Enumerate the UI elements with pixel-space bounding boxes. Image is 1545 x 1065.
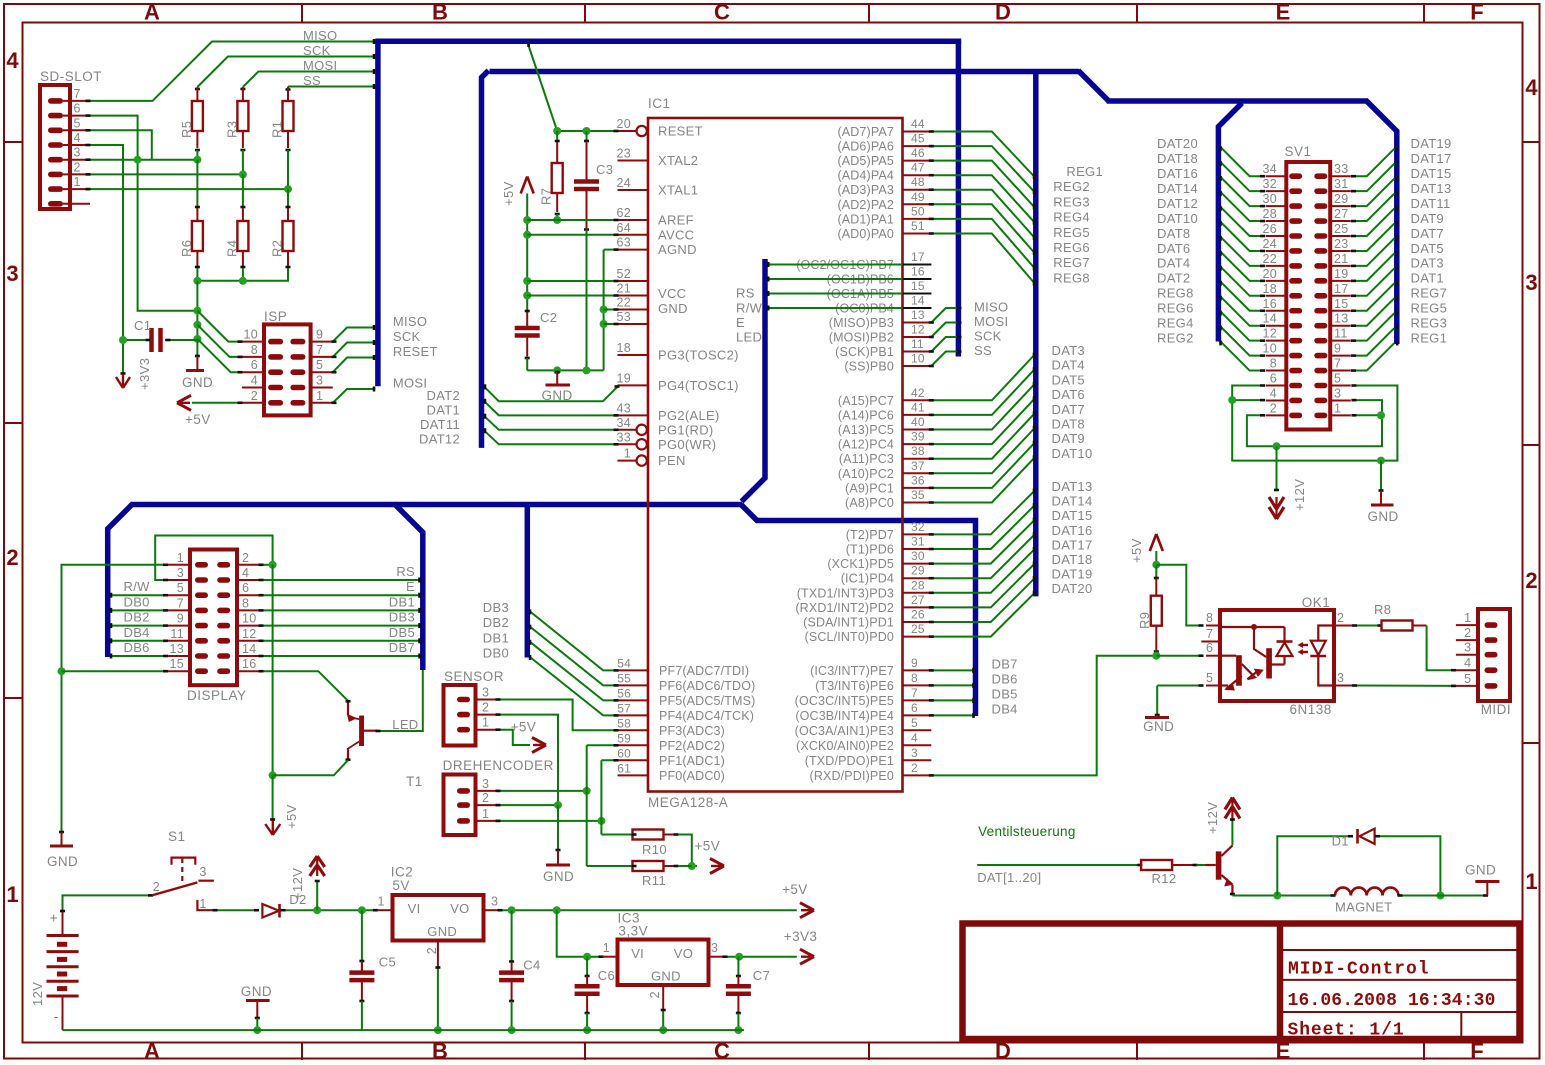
svg-text:11: 11 bbox=[911, 337, 924, 351]
svg-text:C7: C7 bbox=[753, 968, 770, 983]
wire DAT20 to SV1 pin 34 bbox=[1157, 136, 1265, 176]
wire flyback right bbox=[1375, 836, 1444, 899]
svg-text:(SCL/INT0)PD0: (SCL/INT0)PD0 bbox=[805, 630, 894, 644]
IC1 pin 62 AREF bbox=[616, 206, 693, 228]
wire DAT3 PC7 to DAT bus bbox=[929, 343, 1085, 400]
bus LCD DB vertical bbox=[525, 505, 531, 658]
connector DREHENCODER body bbox=[443, 758, 554, 835]
IC1 pin 6 (OC3B/INT4)PE4 bbox=[795, 701, 931, 723]
wire DAT17 PD3 to DAT bus bbox=[929, 537, 1093, 592]
svg-text:SCK: SCK bbox=[303, 43, 331, 58]
svg-text:3: 3 bbox=[6, 261, 18, 286]
svg-text:SENSOR: SENSOR bbox=[444, 669, 504, 684]
IC1 pin 45 (AD6)PA6 bbox=[837, 132, 931, 154]
svg-text:25: 25 bbox=[1334, 222, 1349, 236]
SENSOR pin 1 bbox=[457, 716, 499, 733]
power +12V arrow at SV1 bbox=[1269, 446, 1307, 519]
svg-text:GND: GND bbox=[1465, 863, 1496, 878]
wire DB7 PE7 to DB bus bbox=[929, 656, 1018, 673]
svg-text:64: 64 bbox=[616, 221, 631, 235]
svg-text:DAT10: DAT10 bbox=[1157, 211, 1198, 226]
IC1 pin 59 PF2(ADC2) bbox=[617, 731, 725, 753]
wire SCK PB1 to SPI bus bbox=[929, 329, 1002, 352]
SV1 pin 16 bbox=[1262, 297, 1302, 314]
bus SV1 right vertical bbox=[1366, 100, 1397, 344]
svg-text:31: 31 bbox=[911, 535, 925, 549]
svg-text:DAT8: DAT8 bbox=[1052, 417, 1085, 432]
svg-text:PG0(WR): PG0(WR) bbox=[658, 437, 716, 452]
wire +5V to IC3 bbox=[557, 910, 604, 961]
svg-text:12V: 12V bbox=[30, 982, 45, 1006]
svg-text:C: C bbox=[714, 0, 730, 25]
junction +3V3 C1 bbox=[119, 336, 127, 344]
svg-text:(IC3/INT7)PE7: (IC3/INT7)PE7 bbox=[810, 664, 894, 678]
svg-text:DAT13: DAT13 bbox=[1052, 479, 1093, 494]
IC1 pin 17 (OC2/OC1C)PB7 bbox=[796, 250, 931, 272]
svg-text:(A11)PC3: (A11)PC3 bbox=[839, 452, 894, 466]
svg-text:35: 35 bbox=[911, 488, 925, 502]
svg-text:REG4: REG4 bbox=[1053, 210, 1090, 225]
SV1 pin 3 bbox=[1314, 386, 1351, 403]
wire MISO PB3 to SPI bus bbox=[929, 300, 1009, 323]
IC1 pin 40 (A13)PC5 bbox=[838, 415, 931, 437]
svg-text:DAT17: DAT17 bbox=[1052, 537, 1093, 552]
svg-text:REG3: REG3 bbox=[1411, 316, 1448, 331]
svg-text:C2: C2 bbox=[540, 310, 557, 325]
net label DAT12 bbox=[419, 432, 460, 447]
wire pull-up common node bbox=[193, 268, 288, 343]
svg-text:+5V: +5V bbox=[511, 719, 537, 734]
svg-text:1: 1 bbox=[624, 447, 631, 461]
wire MOSI from R3 bbox=[240, 69, 375, 89]
wire AGND bbox=[600, 250, 619, 371]
svg-text:VI: VI bbox=[408, 901, 421, 916]
svg-text:+12V: +12V bbox=[290, 868, 305, 900]
wire DREHENCODER pin1 to PF1 and R10 bbox=[496, 760, 633, 834]
OK1 pin 6 bbox=[1206, 641, 1220, 656]
wire DAT8 to SV1 pin 22 bbox=[1157, 226, 1265, 266]
wire DAT16 to SV1 pin 30 bbox=[1157, 166, 1265, 206]
svg-text:48: 48 bbox=[911, 175, 925, 189]
svg-text:MOSI: MOSI bbox=[393, 376, 427, 391]
svg-text:DAT19: DAT19 bbox=[1411, 136, 1452, 151]
svg-text:R8: R8 bbox=[1374, 602, 1391, 617]
svg-text:1: 1 bbox=[199, 897, 206, 911]
wire GND rail under C2 bbox=[527, 366, 603, 374]
SV1 pin 8 bbox=[1266, 357, 1303, 374]
svg-text:50: 50 bbox=[911, 204, 925, 218]
wire DISPLAY pin2 +5V bbox=[259, 561, 277, 820]
svg-text:REG8: REG8 bbox=[1053, 270, 1090, 285]
IC1 pin 1 PEN bbox=[618, 447, 686, 469]
svg-text:2: 2 bbox=[648, 991, 662, 998]
IC1 pin 47 (AD4)PA4 bbox=[837, 161, 931, 183]
wire DAT11 to SV1 pin 25 bbox=[1351, 196, 1451, 236]
svg-text:5V: 5V bbox=[392, 878, 410, 893]
DISPLAY pin 1 bbox=[167, 551, 208, 568]
svg-text:DAT17: DAT17 bbox=[1411, 151, 1452, 166]
switch S1 bbox=[152, 829, 214, 911]
svg-text:(A13)PC5: (A13)PC5 bbox=[838, 423, 894, 437]
SD-SLOT pin 4 bbox=[48, 131, 90, 148]
svg-text:PF1(ADC1): PF1(ADC1) bbox=[659, 754, 725, 768]
DISPLAY pin 2 bbox=[217, 551, 260, 568]
IC1 pin 4 (XCK0/AIN0)PE2 bbox=[796, 731, 931, 753]
IC1 pin 9 (IC3/INT7)PE7 bbox=[810, 656, 931, 678]
svg-text:DAT18: DAT18 bbox=[1157, 151, 1198, 166]
IC1 pin 58 PF3(ADC3) bbox=[617, 716, 725, 738]
svg-text:16.06.2008 16:34:30: 16.06.2008 16:34:30 bbox=[1288, 991, 1496, 1011]
wire D2 to IC2 bbox=[281, 906, 379, 914]
svg-text:SS: SS bbox=[303, 73, 321, 88]
optocoupler OK1 6N138 body bbox=[1220, 595, 1334, 717]
bus DAT left vertical bbox=[482, 71, 489, 448]
svg-text:1: 1 bbox=[1464, 611, 1471, 625]
net label DAT11 bbox=[420, 417, 460, 432]
svg-text:GND: GND bbox=[182, 375, 213, 390]
svg-text:14: 14 bbox=[242, 642, 257, 656]
svg-text:R1: R1 bbox=[270, 121, 285, 138]
svg-text:XTAL2: XTAL2 bbox=[658, 153, 698, 168]
svg-text:PF7(ADC7/TDI): PF7(ADC7/TDI) bbox=[659, 664, 749, 678]
svg-text:19: 19 bbox=[616, 371, 631, 385]
svg-text:6: 6 bbox=[251, 358, 258, 372]
svg-text:3: 3 bbox=[1525, 270, 1537, 295]
resistor R9 bbox=[1137, 565, 1162, 660]
wire DB4 DISPLAY to bus bbox=[110, 625, 168, 644]
svg-text:DB5: DB5 bbox=[992, 686, 1018, 701]
svg-text:DAT7: DAT7 bbox=[1411, 226, 1444, 241]
resistor R8 bbox=[1374, 602, 1427, 631]
SV1 pin 11 bbox=[1314, 327, 1351, 344]
IC1 pin 21 VCC bbox=[616, 282, 686, 302]
svg-text:28: 28 bbox=[911, 578, 925, 592]
svg-text:49: 49 bbox=[911, 190, 925, 204]
svg-text:DAT13: DAT13 bbox=[1411, 181, 1452, 196]
wire REG5 PA3 to DAT bus bbox=[929, 190, 1090, 240]
wire IC3 out +3V3 bbox=[723, 953, 797, 961]
wire +5V column bbox=[523, 194, 531, 311]
svg-text:(A12)PC4: (A12)PC4 bbox=[838, 438, 894, 452]
ground GND under C2 bbox=[542, 370, 573, 403]
power +3V3 arrow bbox=[116, 358, 152, 390]
svg-text:AVCC: AVCC bbox=[658, 227, 694, 242]
resistor R6 bbox=[179, 208, 203, 267]
wire R3 bottom bbox=[239, 150, 247, 207]
svg-text:62: 62 bbox=[616, 206, 631, 220]
svg-text:6: 6 bbox=[911, 701, 918, 715]
SD-SLOT pin 6 bbox=[48, 102, 90, 119]
SD-SLOT pin 7 bbox=[48, 87, 90, 104]
wire IC3 pin2 to rail bbox=[659, 1009, 667, 1034]
svg-text:PG4(TOSC1): PG4(TOSC1) bbox=[658, 378, 739, 393]
wire R/W to PB6 bbox=[768, 277, 932, 282]
wire OK1 pin3 to MIDI pin5 bbox=[1352, 685, 1456, 687]
ISP pin 6 bbox=[242, 358, 283, 375]
svg-text:63: 63 bbox=[616, 236, 631, 250]
svg-text:21: 21 bbox=[616, 282, 631, 296]
svg-text:C5: C5 bbox=[379, 955, 396, 970]
svg-text:28: 28 bbox=[1262, 207, 1277, 221]
IC1 pin 27 (RXD1/INT2)PD2 bbox=[795, 593, 931, 615]
svg-text:MIDI: MIDI bbox=[1481, 702, 1512, 717]
resistor R4 bbox=[224, 208, 248, 267]
svg-text:1: 1 bbox=[177, 551, 184, 565]
wire DAT4 PC6 to DAT bus bbox=[929, 358, 1085, 415]
wire ISP pin7 SCK bbox=[332, 340, 376, 357]
svg-text:PF2(ADC2): PF2(ADC2) bbox=[659, 739, 725, 753]
resistor R12 bbox=[1141, 860, 1197, 886]
wire REG1 PA7 to DAT bus bbox=[929, 132, 1103, 180]
DISPLAY pin 4 bbox=[217, 566, 260, 583]
svg-text:5: 5 bbox=[911, 716, 918, 730]
MIDI pin 4 bbox=[1456, 656, 1498, 673]
svg-text:C1: C1 bbox=[134, 318, 151, 333]
wire DB3 DISPLAY to bus right bbox=[259, 610, 421, 629]
svg-text:4: 4 bbox=[1270, 386, 1277, 400]
OK1 internal symbol bbox=[1221, 624, 1334, 691]
svg-text:(AD3)PA3: (AD3)PA3 bbox=[837, 183, 894, 197]
IC1 pin 38 (A11)PC3 bbox=[839, 444, 931, 466]
wire RXD PE0 to OK1 input bbox=[929, 656, 1155, 776]
svg-text:DAT12: DAT12 bbox=[1157, 196, 1198, 211]
svg-text:11: 11 bbox=[170, 627, 184, 641]
svg-text:6N138: 6N138 bbox=[1290, 702, 1332, 717]
IC1 pin 50 (AD1)PA1 bbox=[837, 204, 931, 226]
SV1 pin 20 bbox=[1262, 267, 1302, 284]
wire SENSOR pin3 to PF3 bbox=[496, 700, 619, 731]
wire R1 bottom bbox=[284, 150, 292, 207]
svg-text:37: 37 bbox=[911, 459, 925, 473]
OK1 pin 5 bbox=[1206, 671, 1220, 686]
svg-text:3: 3 bbox=[711, 941, 718, 955]
DREHENCODER pin 3 bbox=[457, 777, 499, 794]
wire REG5 to SV1 pin 11 bbox=[1351, 301, 1447, 341]
svg-text:56: 56 bbox=[617, 686, 631, 700]
IC1 pin 24 XTAL1 bbox=[616, 176, 698, 198]
wire magnet to GND bbox=[1398, 895, 1489, 897]
IC1 pin 26 (SDA/INT1)PD1 bbox=[803, 608, 931, 630]
svg-text:DAT19: DAT19 bbox=[1052, 567, 1093, 582]
ISP pin 8 bbox=[242, 343, 283, 360]
svg-text:SCK: SCK bbox=[393, 329, 421, 344]
svg-text:1: 1 bbox=[6, 882, 18, 907]
svg-text:DAT3: DAT3 bbox=[1052, 343, 1085, 358]
svg-text:3: 3 bbox=[1464, 641, 1471, 655]
power +5V arrow at R9 bbox=[1129, 534, 1163, 565]
svg-text:DB6: DB6 bbox=[992, 671, 1018, 686]
bus DAT horizontal to SV1 bbox=[1107, 98, 1368, 104]
svg-text:4: 4 bbox=[6, 48, 19, 73]
svg-text:+5V: +5V bbox=[185, 412, 211, 427]
wire E to PB5 bbox=[768, 291, 932, 296]
IC1 pin 43 PG2(ALE) bbox=[616, 401, 719, 423]
svg-text:VCC: VCC bbox=[658, 286, 686, 301]
SV1 pin 14 bbox=[1262, 312, 1302, 329]
svg-text:R/W: R/W bbox=[736, 301, 763, 316]
svg-text:2: 2 bbox=[1337, 611, 1344, 625]
SV1 pin 28 bbox=[1262, 207, 1302, 224]
svg-text:(A15)PC7: (A15)PC7 bbox=[838, 394, 894, 408]
wire ISP pin2 +5V bbox=[192, 402, 243, 404]
wire REG7 PA1 to DAT bus bbox=[929, 219, 1090, 270]
bus LCD jog segment bbox=[741, 505, 976, 717]
wire DAT10 PC0 to DAT bus bbox=[929, 446, 1093, 503]
svg-text:OK1: OK1 bbox=[1302, 595, 1331, 610]
svg-text:60: 60 bbox=[617, 746, 631, 760]
wire REG6 to SV1 pin 12 bbox=[1157, 301, 1265, 341]
svg-text:DAT1: DAT1 bbox=[1411, 271, 1444, 286]
svg-text:29: 29 bbox=[911, 564, 925, 578]
svg-text:R3: R3 bbox=[224, 121, 239, 138]
DISPLAY pin 9 bbox=[167, 612, 208, 629]
svg-text:34: 34 bbox=[616, 416, 631, 430]
svg-text:REG7: REG7 bbox=[1053, 255, 1090, 270]
wire SCK from R5 bbox=[195, 54, 375, 89]
connector DISPLAY body bbox=[187, 550, 247, 704]
svg-text:9: 9 bbox=[316, 328, 323, 342]
svg-text:3: 3 bbox=[1334, 386, 1341, 400]
svg-text:1: 1 bbox=[316, 389, 323, 403]
svg-text:(MISO)PB3: (MISO)PB3 bbox=[829, 316, 894, 330]
svg-text:PF4(ADC4/TCK): PF4(ADC4/TCK) bbox=[659, 709, 754, 723]
svg-text:MOSI: MOSI bbox=[974, 314, 1008, 329]
power +12V arrow at Q1 bbox=[1205, 798, 1240, 846]
svg-text:D: D bbox=[995, 0, 1011, 25]
IC1 pin 36 (A9)PC1 bbox=[845, 473, 931, 495]
svg-text:2: 2 bbox=[251, 389, 258, 403]
wire REG1 to SV1 pin 7 bbox=[1351, 330, 1447, 370]
IC1 pin 32 (T2)PD7 bbox=[846, 520, 932, 542]
net label MOSI bbox=[303, 58, 337, 73]
svg-text:33: 33 bbox=[616, 430, 631, 444]
svg-text:22: 22 bbox=[1262, 252, 1277, 266]
svg-text:REG1: REG1 bbox=[1411, 330, 1448, 345]
svg-text:+3V3: +3V3 bbox=[784, 929, 818, 944]
svg-text:REG4: REG4 bbox=[1157, 316, 1194, 331]
svg-text:14: 14 bbox=[1262, 312, 1277, 326]
svg-text:DB7: DB7 bbox=[992, 656, 1018, 671]
connector MIDI body bbox=[1478, 609, 1511, 717]
wire DAT16 PD4 to DAT bus bbox=[929, 523, 1093, 578]
wire DAT14 to SV1 pin 28 bbox=[1157, 181, 1265, 221]
svg-text:+5V: +5V bbox=[284, 804, 299, 829]
wire REG3 to SV1 pin 9 bbox=[1351, 316, 1447, 356]
svg-text:31: 31 bbox=[1334, 177, 1349, 191]
connector SD-SLOT body bbox=[40, 69, 102, 209]
ground GND at DISPLAY bbox=[47, 832, 78, 869]
wire SS from R1 bbox=[286, 84, 376, 90]
svg-text:23: 23 bbox=[1334, 237, 1349, 251]
wire DAT12 to SV1 pin 26 bbox=[1157, 196, 1265, 236]
wire DAT9 to SV1 pin 23 bbox=[1351, 211, 1444, 251]
svg-text:61: 61 bbox=[617, 761, 631, 775]
SV1 pin 30 bbox=[1262, 192, 1302, 209]
wire GND 22 bbox=[604, 309, 619, 311]
IC1 pin 57 PF4(ADC4/TCK) bbox=[617, 701, 754, 723]
power +5V arrow at SENSOR bbox=[511, 719, 546, 752]
svg-text:MISO: MISO bbox=[974, 300, 1008, 315]
IC1 pin 52 bbox=[616, 267, 648, 281]
capacitor C1 bbox=[123, 318, 197, 352]
wire IC2 pin2 to rail bbox=[434, 967, 442, 1035]
IC1 pin 20 RESET bbox=[616, 117, 702, 139]
wire IC2 out +5V rail bbox=[498, 906, 797, 914]
svg-text:2: 2 bbox=[482, 791, 489, 805]
svg-text:(AD5)PA5: (AD5)PA5 bbox=[837, 154, 894, 168]
SV1 pin 5 bbox=[1314, 372, 1351, 389]
svg-text:20: 20 bbox=[616, 117, 631, 131]
svg-text:E: E bbox=[406, 579, 415, 594]
svg-text:(TXD1/INT3)PD3: (TXD1/INT3)PD3 bbox=[797, 586, 894, 600]
svg-text:8: 8 bbox=[1206, 611, 1213, 625]
wire DB2 bus to IC1 bbox=[483, 615, 619, 685]
svg-text:9: 9 bbox=[1334, 342, 1341, 356]
svg-text:2: 2 bbox=[425, 947, 439, 954]
svg-text:Sheet: 1/1: Sheet: 1/1 bbox=[1288, 1021, 1405, 1041]
ISP pin 4 bbox=[242, 374, 283, 391]
resistor R5 bbox=[179, 87, 203, 150]
OK1 pin 3 bbox=[1334, 671, 1353, 686]
svg-text:MAGNET: MAGNET bbox=[1335, 900, 1392, 915]
wire DAT18 PD2 to DAT bus bbox=[929, 552, 1093, 607]
SV1 pin 6 bbox=[1266, 372, 1303, 389]
svg-text:DB5: DB5 bbox=[389, 625, 415, 640]
svg-text:16: 16 bbox=[911, 265, 925, 279]
wire DAT1 to SV1 pin 15 bbox=[1351, 271, 1444, 311]
wire VCC 21 bbox=[527, 295, 618, 297]
capacitor C7 bbox=[726, 957, 770, 1034]
svg-text:(T2)PD7: (T2)PD7 bbox=[846, 528, 894, 542]
wire DAT10 to SV1 pin 24 bbox=[1157, 211, 1265, 251]
svg-text:(RXD1/INT2)PD2: (RXD1/INT2)PD2 bbox=[795, 601, 894, 615]
svg-text:6: 6 bbox=[242, 581, 249, 595]
IC1 pin 2 (RXD/PDI)PE0 bbox=[810, 761, 932, 783]
wire DAT13 to SV1 pin 27 bbox=[1351, 181, 1452, 221]
svg-text:DAT10: DAT10 bbox=[1052, 446, 1093, 461]
IC1 pin 28 (TXD1/INT3)PD3 bbox=[797, 578, 932, 600]
wire SD pin6 down bbox=[86, 116, 198, 311]
wire DAT5 to SV1 pin 19 bbox=[1351, 241, 1444, 281]
wire SS PB0 to SPI bus bbox=[929, 343, 992, 366]
wire MOSI PB2 to SPI bus bbox=[929, 314, 1009, 337]
SV1 pin 34 bbox=[1262, 162, 1302, 179]
net label DAT1 bbox=[427, 403, 460, 418]
svg-text:DAT15: DAT15 bbox=[1411, 166, 1452, 181]
SV1 pin 21 bbox=[1314, 252, 1351, 269]
svg-text:6: 6 bbox=[74, 102, 81, 116]
svg-text:A: A bbox=[144, 0, 160, 25]
svg-text:(A10)PC2: (A10)PC2 bbox=[838, 467, 894, 481]
svg-text:DAT6: DAT6 bbox=[1052, 387, 1085, 402]
svg-text:(IC1)PD4: (IC1)PD4 bbox=[841, 572, 894, 586]
svg-text:PEN: PEN bbox=[658, 453, 686, 468]
svg-text:PF0(ADC0): PF0(ADC0) bbox=[659, 769, 725, 783]
IC1 pin 19 PG4(TOSC1) bbox=[616, 371, 738, 393]
wire DAT9 PC1 to DAT bus bbox=[929, 431, 1085, 488]
svg-text:3: 3 bbox=[482, 686, 489, 700]
capacitor C3 bbox=[574, 131, 613, 370]
svg-text:25: 25 bbox=[911, 622, 925, 636]
power +3V3 arrow right bbox=[784, 929, 818, 964]
svg-text:3: 3 bbox=[491, 895, 498, 909]
svg-text:+5V: +5V bbox=[1129, 538, 1144, 563]
svg-text:44: 44 bbox=[911, 117, 925, 131]
svg-text:REG2: REG2 bbox=[1053, 179, 1090, 194]
net label SCK bbox=[303, 43, 331, 58]
SV1 pin 2 bbox=[1266, 401, 1303, 418]
svg-text:MEGA128-A: MEGA128-A bbox=[648, 795, 728, 810]
